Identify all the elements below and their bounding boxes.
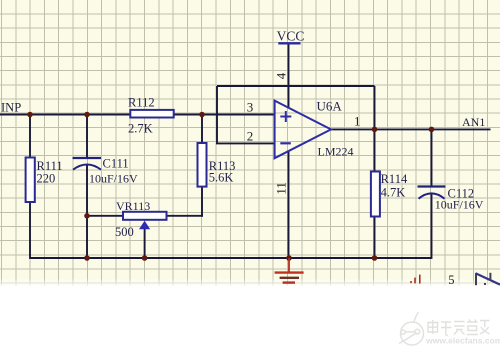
wire: main input net, R112 to op-amp pin3 xyxy=(173,114,275,116)
svg-text:220: 220 xyxy=(37,172,56,186)
svg-text:10uF/16V: 10uF/16V xyxy=(89,171,138,185)
op-amp minus symbol xyxy=(280,142,291,144)
wire: bottom ground rail xyxy=(30,257,432,259)
resistor R112 xyxy=(130,110,173,118)
wire: C111 bottom lead down through VR node xyxy=(86,165,88,259)
junction dot R112/R113 node xyxy=(199,112,205,118)
svg-text:C111: C111 xyxy=(103,157,129,171)
svg-text:R114: R114 xyxy=(381,172,408,186)
svg-text:4: 4 xyxy=(274,72,289,79)
wire: C112 top lead xyxy=(431,129,433,186)
wire: R113 bottom lead xyxy=(201,187,203,217)
svg-text:INP: INP xyxy=(1,101,21,115)
wire: R114 bottom lead xyxy=(374,217,376,259)
capacitor C112 xyxy=(418,185,446,187)
watermark logo circle xyxy=(399,312,424,345)
wire: feedback top horizontal xyxy=(217,85,375,87)
resistor R113 xyxy=(198,143,207,187)
svg-text:11: 11 xyxy=(274,182,289,195)
wire: C112 bottom lead xyxy=(431,194,433,259)
svg-text:5: 5 xyxy=(448,273,454,287)
junction dot rail/pin11 ground xyxy=(286,255,292,261)
junction dot INP/R111 xyxy=(27,112,33,118)
junction dot INP/C111 xyxy=(84,112,90,118)
wire: feedback box left vertical xyxy=(216,86,218,143)
junction dot output/C112 xyxy=(429,127,435,133)
wire: op-amp pin4 VCC lead xyxy=(288,43,290,108)
wire: R111 bottom lead xyxy=(29,202,31,259)
wire: main input net INP, left of R112 xyxy=(0,114,131,116)
wire: C111 top lead xyxy=(86,114,88,159)
wire: op-amp pin11 lead to ground rail xyxy=(288,151,290,258)
resistor R114 xyxy=(371,172,380,217)
junction dot rail/C111 xyxy=(84,255,90,261)
watermark chinese characters xyxy=(428,320,490,336)
svg-text:1: 1 xyxy=(354,113,361,128)
svg-text:VCC: VCC xyxy=(277,28,305,43)
svg-text:LM224: LM224 xyxy=(318,144,354,158)
svg-text:5.6K: 5.6K xyxy=(209,171,234,185)
svg-text:U6A: U6A xyxy=(317,99,343,114)
resistor R111 xyxy=(26,158,35,203)
svg-text:VR113: VR113 xyxy=(116,199,150,213)
small red level marks xyxy=(411,275,420,284)
svg-text:4.7K: 4.7K xyxy=(381,186,406,200)
junction dot rail/wiper xyxy=(142,255,148,261)
svg-text:3: 3 xyxy=(247,100,254,115)
svg-text:10uF/16V: 10uF/16V xyxy=(435,198,484,212)
svg-text:500: 500 xyxy=(115,225,134,239)
clipped symbol at right edge xyxy=(476,273,500,285)
svg-text:www.elecfans.com: www.elecfans.com xyxy=(425,336,500,346)
wire: output net to AN1 xyxy=(331,128,491,130)
wire: R113 top lead xyxy=(201,114,203,144)
junction dot rail/R114 xyxy=(372,255,378,261)
wire: pin2 horizontal into inverting input xyxy=(216,142,275,144)
capacitor C111 xyxy=(73,157,102,159)
svg-text:AN1: AN1 xyxy=(462,115,485,129)
ground symbol xyxy=(275,258,304,283)
wire: VR113 right lead to R113 xyxy=(167,215,203,217)
wire: feedback right vertical to output xyxy=(374,86,376,129)
svg-text:2: 2 xyxy=(247,128,254,143)
op-amp plus symbol xyxy=(280,111,291,122)
svg-text:2.7K: 2.7K xyxy=(128,122,153,136)
wire: R114 top lead xyxy=(374,129,376,172)
junction dot output/R114 xyxy=(372,127,378,133)
wire: VR113 left lead from C111 node xyxy=(87,215,123,217)
junction dot C111/VR113 xyxy=(84,213,90,219)
op-amp U6A triangle xyxy=(275,101,331,159)
potentiometer VR113 xyxy=(123,212,167,220)
svg-text:R112: R112 xyxy=(128,95,155,109)
VCC power symbol xyxy=(278,42,300,44)
wire: VR113 wiper stem xyxy=(144,229,146,258)
wire: R111 top lead xyxy=(29,114,31,158)
